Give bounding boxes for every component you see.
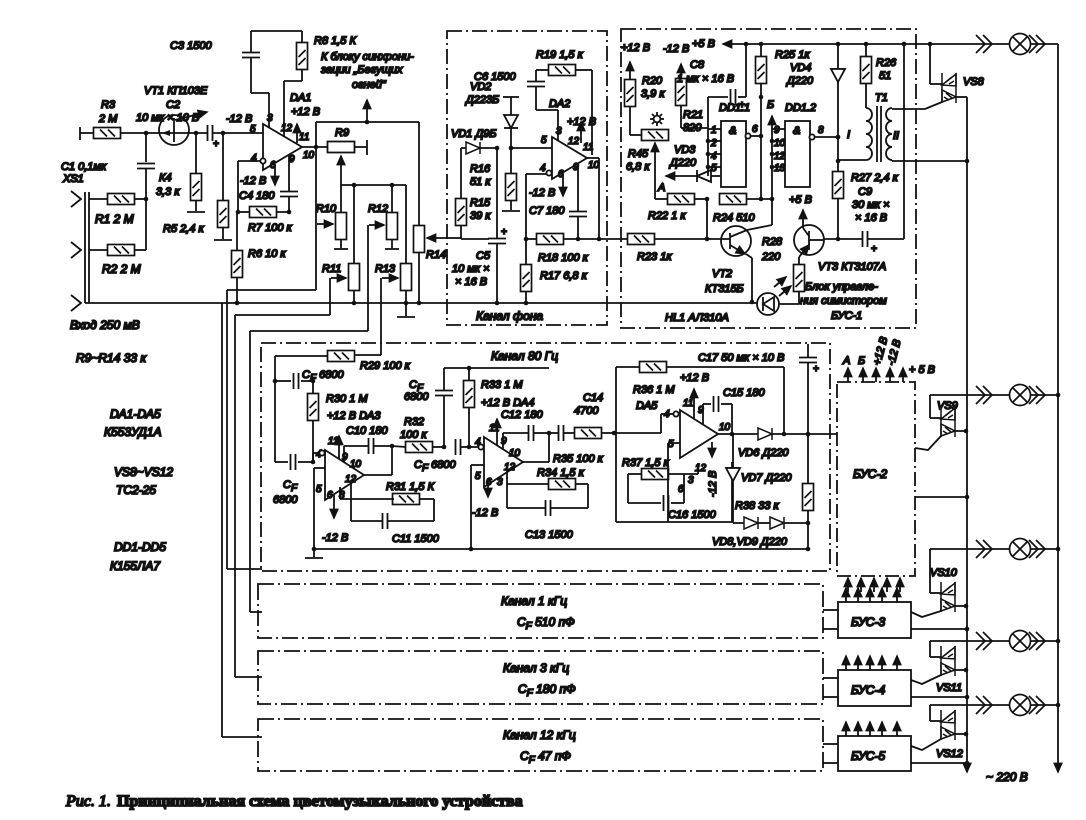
svg-text:3: 3 <box>497 477 503 488</box>
node sync takeoff <box>365 120 370 125</box>
resistor R30 <box>308 381 369 462</box>
resistor R9 <box>328 127 368 155</box>
svg-text:R12: R12 <box>368 203 388 215</box>
svg-text:+: + <box>501 227 507 238</box>
diode VD1 Д9Б <box>451 128 496 154</box>
svg-text:VD4: VD4 <box>790 62 811 74</box>
wire C3 to pin3 <box>251 93 269 129</box>
resistor R37 <box>622 457 698 503</box>
svg-text:&: & <box>793 125 800 137</box>
node Б with arrow <box>767 99 774 129</box>
svg-text:3: 3 <box>688 475 694 486</box>
svg-text:51: 51 <box>879 70 891 82</box>
svg-text:+ 5 В: + 5 В <box>909 364 935 376</box>
capacitor Cf feedback DA4 <box>404 368 549 447</box>
node R33 top <box>467 366 472 371</box>
node output R18 <box>597 237 602 242</box>
capacitor C15 <box>703 387 765 434</box>
svg-text:100 к: 100 к <box>400 429 427 441</box>
svg-text:С3 1500: С3 1500 <box>170 40 212 52</box>
svg-text:8: 8 <box>818 125 824 136</box>
resistor R26 <box>861 44 898 108</box>
arrow +12В DA1 pin11 <box>296 124 298 143</box>
svg-text:огней": огней" <box>352 79 387 91</box>
svg-text:ТС2-25: ТС2-25 <box>116 483 156 497</box>
svg-text:С2: С2 <box>166 99 180 111</box>
svg-text:4: 4 <box>711 151 717 162</box>
box Канал фона <box>447 31 607 325</box>
svg-text:R5 2,4 к: R5 2,4 к <box>163 223 204 235</box>
svg-text:R24 510: R24 510 <box>713 212 755 224</box>
box Канал 3 кГц <box>258 651 823 704</box>
svg-text:R10: R10 <box>316 203 337 215</box>
wire lamp row 3 <box>930 548 1058 550</box>
capacitor C12 <box>501 409 549 449</box>
svg-text:1: 1 <box>711 125 717 136</box>
lamp symbol above R45 <box>650 112 664 126</box>
resistor R31 <box>340 481 435 521</box>
diode VD9 <box>712 517 808 548</box>
svg-text:Рис. 1.: Рис. 1. <box>65 793 111 810</box>
lamp EL5 <box>1010 695 1031 716</box>
wire lamp row 1 <box>930 43 1058 45</box>
svg-text:С5: С5 <box>476 250 491 262</box>
svg-text:+12 В: +12 В <box>291 106 320 118</box>
svg-text:12: 12 <box>568 136 580 147</box>
node top bus VS8 <box>928 42 933 47</box>
gate DD1.2 <box>785 102 816 187</box>
transistor VT1 КП103Е <box>144 85 208 145</box>
svg-text:Принципиальная схема цветомузы: Принципиальная схема цветомузыкального у… <box>117 793 523 810</box>
svg-text:Т1: Т1 <box>875 92 888 104</box>
svg-text:5: 5 <box>316 484 322 495</box>
label VS8-VS12 <box>114 465 173 497</box>
svg-text:R37 1,5 к: R37 1,5 к <box>622 457 670 469</box>
svg-text:К блоку синхрони-: К блоку синхрони- <box>321 51 414 63</box>
svg-text:R45: R45 <box>628 148 649 160</box>
capacitor C6 <box>474 70 558 141</box>
svg-text:10: 10 <box>303 150 315 161</box>
wire DA2 output <box>587 158 599 239</box>
node VT2 base <box>705 237 710 242</box>
node Cf top right <box>311 379 316 384</box>
node R35 right <box>612 431 617 436</box>
box Канал 1 кГц <box>258 584 823 638</box>
node 354,185 <box>352 183 357 188</box>
capacitor C3 <box>170 31 260 93</box>
node lamp3 right <box>1056 547 1061 552</box>
svg-text:+12 В DA3: +12 В DA3 <box>327 410 381 422</box>
wire to DA5 pin4 <box>614 414 673 433</box>
resistor R15 <box>456 148 492 239</box>
svg-text:6,8 к: 6,8 к <box>626 161 650 173</box>
svg-text:VT2: VT2 <box>712 268 732 280</box>
svg-text:С14: С14 <box>583 392 603 404</box>
node VT1 drain <box>194 131 199 136</box>
svg-text:3,9 к: 3,9 к <box>641 88 665 100</box>
svg-text:11: 11 <box>299 132 309 143</box>
svg-text:820: 820 <box>683 122 702 134</box>
svg-text:VT1 КП103Е: VT1 КП103Е <box>144 85 208 97</box>
resistor R3 <box>94 99 121 139</box>
arrow +12В DA4 pin11 <box>496 419 498 445</box>
wire bus through fona box <box>447 302 607 304</box>
svg-text:КТ315Б: КТ315Б <box>705 283 744 295</box>
op-amp DA3 <box>316 436 364 501</box>
arrow -12В DA3 pin6 <box>322 495 348 544</box>
resistor R23 <box>607 234 730 264</box>
svg-text:С6 1500: С6 1500 <box>474 71 516 83</box>
lamp EL4 <box>1010 631 1031 652</box>
node 967/161 <box>965 159 970 164</box>
svg-text:30 мк ×: 30 мк × <box>852 199 890 211</box>
svg-text:VT3 КТ3107А: VT3 КТ3107А <box>818 261 886 273</box>
wire БУС-3 out <box>911 627 969 632</box>
diode VD8 <box>744 517 758 529</box>
node VS12 cathode <box>964 732 969 737</box>
svg-text:С1 0,1мк: С1 0,1мк <box>61 161 107 173</box>
node R25 top <box>759 42 764 47</box>
svg-text:11: 11 <box>683 398 693 409</box>
capacitor C9 <box>824 186 904 255</box>
connector chevrons lamp1 right <box>1029 35 1045 53</box>
wire top bus <box>740 43 930 45</box>
svg-text:2: 2 <box>710 138 717 149</box>
svg-text:3,3 к: 3,3 к <box>156 186 180 198</box>
capacitor C16 <box>628 474 717 521</box>
capacitor Cf series DA4 <box>456 439 470 455</box>
svg-text:3: 3 <box>556 126 562 137</box>
svg-text:5: 5 <box>541 135 547 146</box>
svg-text:4: 4 <box>540 163 546 174</box>
svg-text:R11: R11 <box>322 263 341 275</box>
svg-text:+: + <box>813 364 819 375</box>
svg-text:С13 1500: С13 1500 <box>525 529 574 541</box>
svg-text:С16 1500: С16 1500 <box>668 509 717 521</box>
pin5 DA4 down <box>471 465 484 549</box>
svg-text:R21: R21 <box>683 109 703 121</box>
svg-text:Канал фона: Канал фона <box>476 309 543 323</box>
svg-text:R32: R32 <box>404 416 424 428</box>
svg-text:~ 220 В: ~ 220 В <box>986 770 1028 784</box>
svg-text:R7 100 к: R7 100 к <box>248 222 293 234</box>
svg-text:R19 1,5 к: R19 1,5 к <box>536 49 584 61</box>
svg-text:10: 10 <box>719 422 731 433</box>
svg-text:DD1.1: DD1.1 <box>719 102 750 114</box>
arrow +12В DA3 pin11 <box>338 436 340 459</box>
connector chevrons lamp4 right <box>1029 632 1045 650</box>
БУС-3 arrows <box>846 588 897 602</box>
node feedback Cf <box>442 445 447 450</box>
wire R12 wiper down to 1kHz channel <box>250 225 368 612</box>
connector chevrons lamp3 right <box>1029 540 1045 558</box>
svg-text:1 мк × 16 В: 1 мк × 16 В <box>677 73 734 85</box>
label +12В DA5 <box>636 372 709 412</box>
node R11 bus <box>352 301 357 306</box>
connector chevrons lamp3 left <box>976 540 992 558</box>
diode VD2 Д223Б <box>464 81 519 148</box>
pin4 circle and wire <box>238 158 266 212</box>
transformer T1 core <box>877 106 881 162</box>
node R38/VD9 <box>806 521 811 526</box>
resistor R35 <box>553 428 614 466</box>
svg-text:С12 180: С12 180 <box>501 409 543 421</box>
arrow -12В DA2 pin6 <box>529 175 563 199</box>
wires strip1 to БУС-3 <box>823 610 838 629</box>
svg-text:R8 1,5 К: R8 1,5 К <box>314 35 356 47</box>
arrow +12В DA2 <box>567 116 596 143</box>
capacitor C7 <box>529 166 587 239</box>
resistor R24 <box>713 194 772 225</box>
svg-text:R15: R15 <box>470 197 491 209</box>
node R22/R24 <box>705 197 710 202</box>
svg-text:С11 1500: С11 1500 <box>392 533 440 545</box>
svg-text:+12 В: +12 В <box>567 116 596 128</box>
wire R11 wiper down to 3kHz channel <box>235 278 330 677</box>
node C5 bus <box>495 301 500 306</box>
svg-text:VS9: VS9 <box>937 400 958 412</box>
svg-text:ния симистором: ния симистором <box>800 295 887 307</box>
svg-text:зации „Бегущих: зации „Бегущих <box>320 64 403 76</box>
op-amp DA5 <box>664 398 731 495</box>
potentiometer R11 <box>322 185 360 303</box>
svg-text:+12 В: +12 В <box>680 372 709 384</box>
svg-text:С17 50 мк × 10 В: С17 50 мк × 10 В <box>698 352 784 364</box>
node DD output 137 <box>836 135 841 140</box>
svg-text:VD8,VD9 Д220: VD8,VD9 Д220 <box>712 536 788 548</box>
node Cf top left <box>273 379 278 384</box>
resistor R28 <box>761 236 805 304</box>
triac VS11 <box>911 641 966 694</box>
node lamp5 right <box>1056 703 1061 708</box>
svg-text:-12 В: -12 В <box>529 187 555 199</box>
svg-text:I: I <box>847 129 850 141</box>
node C17 bottom <box>806 432 811 437</box>
svg-text:К4: К4 <box>159 172 172 184</box>
wire БУС-4 out <box>911 695 969 700</box>
arrow to sync block <box>366 100 368 122</box>
wire БУС-2 out to 967 <box>915 496 967 498</box>
svg-text:-12 В: -12 В <box>226 113 252 125</box>
capacitor C4 <box>239 155 298 212</box>
node 392,185 <box>390 183 395 188</box>
svg-text:&: & <box>729 125 736 137</box>
svg-text:С7 180: С7 180 <box>529 205 565 217</box>
resistor R34 <box>507 466 588 508</box>
light arrows to R28 <box>774 277 791 296</box>
wire lamp row 5 <box>930 704 1058 706</box>
wire bus down to 12kHz channel <box>222 303 262 737</box>
node R27 bottom <box>836 237 841 242</box>
svg-text:+: + <box>213 139 219 150</box>
box БУС-3 <box>838 602 911 638</box>
svg-text:R9: R9 <box>335 127 349 139</box>
node VT2 emitter row <box>750 300 755 305</box>
connector chevrons lamp2 left <box>976 386 992 404</box>
svg-text:R23 1к: R23 1к <box>637 251 672 263</box>
svg-text:VS8~VS12: VS8~VS12 <box>114 465 173 479</box>
triac VS8 <box>925 44 985 161</box>
svg-text:DA1-DA5: DA1-DA5 <box>110 407 161 421</box>
node DA4 out <box>547 431 552 436</box>
svg-text:6800: 6800 <box>273 494 298 506</box>
node R6 on bus <box>235 301 240 306</box>
capacitor C5 <box>452 148 507 303</box>
capacitor C10 <box>344 425 392 462</box>
node pin5 bus <box>312 547 317 552</box>
op-amp DA4 <box>475 423 523 488</box>
node 967/497 <box>965 495 970 500</box>
node R17 bus <box>524 301 529 306</box>
connector chevrons lamp2 right <box>1029 386 1045 404</box>
LED HL1 АЛ310А <box>665 293 799 324</box>
node pin4 R18 <box>524 237 529 242</box>
svg-text:R38 33 к: R38 33 к <box>735 500 780 512</box>
wire output top row <box>316 122 419 147</box>
svg-text:-12 В: -12 В <box>663 43 689 55</box>
wire node to VT2 base <box>706 199 708 239</box>
wire to DA2 pin5 <box>511 147 552 149</box>
node VD1 cathode <box>495 146 500 151</box>
svg-text:10 мк ×: 10 мк × <box>452 263 490 275</box>
wire R15 bottom to R14 wiper <box>447 237 461 239</box>
svg-text:Канал 12 кГц: Канал 12 кГц <box>503 728 576 742</box>
wire lamp row 2 <box>930 394 1058 396</box>
node C8 top bus <box>744 42 749 47</box>
svg-text:К553УД1А: К553УД1А <box>104 425 162 439</box>
photoresistor R45 <box>626 130 669 177</box>
svg-text:2 М: 2 М <box>98 113 118 125</box>
row 185 wire <box>341 184 406 186</box>
node R1/C1 <box>144 197 149 202</box>
pin5 DA5 stub <box>668 443 680 522</box>
pin4 circle DA4 <box>469 444 484 449</box>
arrow +5В left on top bus <box>723 43 740 45</box>
svg-text:Канал 80 Гц: Канал 80 Гц <box>491 349 558 363</box>
capacitor C13 <box>507 484 588 541</box>
svg-text:R3: R3 <box>101 99 116 111</box>
wires strip2 to БУС-4 <box>823 678 838 697</box>
svg-text:3: 3 <box>267 113 273 124</box>
wire R3 to VT1 <box>121 132 159 134</box>
wire R29 left to input node <box>275 356 327 462</box>
svg-text:VD3: VD3 <box>674 144 696 156</box>
svg-text:VD1 Д9Б: VD1 Д9Б <box>451 128 496 140</box>
diode VD6 Д220 <box>738 428 837 459</box>
node DA4 pin5 bus <box>469 547 474 552</box>
svg-text:6: 6 <box>486 477 492 488</box>
svg-text:VS10: VS10 <box>930 567 958 579</box>
svg-text:10 мк × 10 В: 10 мк × 10 В <box>136 112 199 124</box>
svg-text:DD1.2: DD1.2 <box>785 102 816 114</box>
svg-text:К155ЛА7: К155ЛА7 <box>110 559 161 573</box>
wires strip3 to БУС-5 <box>823 744 838 763</box>
svg-text:БУС-1: БУС-1 <box>831 310 862 322</box>
svg-text:R6 10 к: R6 10 к <box>248 248 286 260</box>
svg-text:R35 100 к: R35 100 к <box>553 453 604 465</box>
svg-text:DA5: DA5 <box>636 400 658 412</box>
caption <box>65 793 523 810</box>
svg-text:+12 В: +12 В <box>621 42 650 54</box>
lamp EL2 <box>1010 385 1031 406</box>
svg-text:R9~R14 33 к: R9~R14 33 к <box>76 351 147 365</box>
svg-text:II: II <box>893 130 899 142</box>
svg-text:R25 1к: R25 1к <box>775 49 810 61</box>
node R26 top <box>864 42 869 47</box>
node junction C1/R3 <box>144 131 149 136</box>
svg-text:А: А <box>657 182 665 194</box>
node R5 top <box>221 131 226 136</box>
triac VS12 <box>911 705 966 760</box>
node C7 R18 <box>576 237 581 242</box>
svg-text:6: 6 <box>752 124 758 135</box>
svg-text:5: 5 <box>250 124 256 135</box>
svg-text:6800: 6800 <box>404 391 429 403</box>
pin4 circle DA2 <box>526 170 552 239</box>
svg-text:39 к: 39 к <box>470 210 491 222</box>
wire DA3 output <box>364 446 392 475</box>
pin5 to ground DA3 <box>305 468 325 558</box>
capacitor Cf bottom DA3 <box>273 454 313 506</box>
svg-text:12: 12 <box>774 151 786 162</box>
resistor R2 <box>89 245 146 277</box>
svg-text:9: 9 <box>342 452 348 463</box>
svg-text:12: 12 <box>281 123 293 134</box>
node DA5 out <box>730 432 735 437</box>
node VD4 top <box>836 42 841 47</box>
op-amp DA1 <box>250 92 320 171</box>
node R33 bottom <box>467 445 472 450</box>
wire x904 right edge <box>903 44 905 239</box>
lamp EL1 <box>1010 34 1031 55</box>
resistor R6 <box>232 212 287 303</box>
arrow +12В DA5 pin11 <box>693 389 695 418</box>
box БУС-1 <box>621 29 916 328</box>
wire DA4 output <box>523 433 549 462</box>
label DA1-DA5 <box>104 407 162 439</box>
svg-text:5: 5 <box>711 163 717 174</box>
DD1.1 input bus <box>706 97 721 176</box>
node VD2 bottom <box>509 146 514 151</box>
svg-text:С10 180: С10 180 <box>346 425 388 437</box>
svg-text:С15 180: С15 180 <box>723 387 765 399</box>
svg-text:R13: R13 <box>375 263 396 275</box>
pin4 circle DA3 <box>313 450 325 462</box>
svg-text:БУС-5: БУС-5 <box>851 749 885 763</box>
svg-text:Д223Б: Д223Б <box>464 94 499 106</box>
capacitor C1 <box>61 133 155 199</box>
arrow -12В DA5 pin6 rotated <box>707 442 719 497</box>
diode VD7 Д220 <box>726 434 792 523</box>
resistor R22 <box>648 194 707 223</box>
node lamp4 right <box>1056 639 1061 644</box>
capacitor C17 <box>799 344 819 435</box>
resistor R36 <box>616 362 784 436</box>
svg-text:4700: 4700 <box>574 405 599 417</box>
DD1.1 output pin6 <box>745 124 763 139</box>
svg-text:HL1 АЛ310А: HL1 АЛ310А <box>665 312 729 324</box>
svg-text:Д220: Д220 <box>785 75 814 87</box>
potentiometer R12 <box>368 185 399 249</box>
svg-text:× 16 В: × 16 В <box>455 276 487 288</box>
node VS11 cathode <box>964 668 969 673</box>
svg-text:R1 2 М: R1 2 М <box>95 212 134 226</box>
triac VS9 <box>915 395 966 450</box>
svg-text:VD6 Д220: VD6 Д220 <box>738 447 789 459</box>
connector XS1 <box>62 173 89 311</box>
label VD4 Д220 <box>785 62 814 87</box>
wire C3 top to R8 <box>251 30 302 32</box>
